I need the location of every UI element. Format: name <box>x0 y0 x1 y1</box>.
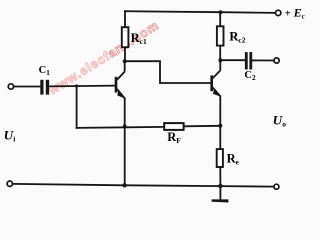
terminal input <box>8 84 13 89</box>
watermark <box>45 18 161 98</box>
terminal bottom left <box>7 181 12 186</box>
wire Rc2 top lead <box>219 12 221 26</box>
wire input right segment to Q1 base <box>49 85 115 88</box>
terminal output top <box>274 58 279 63</box>
node feedback / Q1 emitter crossing <box>123 124 127 128</box>
wire Rc1 bottom lead <box>124 47 126 61</box>
node input feedback tap <box>75 84 78 87</box>
node top rail / Rc2 <box>219 10 223 14</box>
wire Q2 collector node to C2 <box>220 59 245 61</box>
wire Re bottom lead <box>219 167 221 186</box>
wire Q1 emitter down to bottom rail <box>124 98 126 185</box>
wire feedback horizontal right of RF <box>184 125 221 128</box>
node RF / Q2 emitter <box>218 124 222 128</box>
resistor Rc2 <box>217 26 224 45</box>
wire feedback horizontal left of RF <box>77 127 165 128</box>
wire input left segment <box>14 86 41 88</box>
ground <box>212 199 229 202</box>
wire top supply rail <box>125 11 275 13</box>
terminal bottom right <box>274 184 279 189</box>
node Q1 collector <box>123 59 127 63</box>
wire bottom rail <box>13 184 273 187</box>
wire C2 to output terminal <box>252 59 274 61</box>
wire Q2 emitter down to Re <box>219 96 221 149</box>
resistor Re <box>217 149 223 167</box>
capacitor C2 <box>245 52 252 69</box>
wire ground stem <box>219 186 221 200</box>
resistor Rc1 <box>122 27 129 47</box>
resistor RF <box>164 123 183 130</box>
terminal +Ec <box>276 10 281 15</box>
node Re / bottom rail <box>218 184 222 188</box>
wire Rc1 top lead <box>124 11 126 27</box>
transistor Q2 <box>210 60 220 96</box>
wire feedback tap vertical <box>76 86 78 128</box>
wire Rc2 bottom lead <box>219 46 221 61</box>
capacitor C1 <box>40 80 49 95</box>
node Q2 collector <box>218 58 222 62</box>
node Q1 emitter / bottom rail <box>122 183 126 187</box>
wire Q1 collector to Q2 base link <box>125 61 211 83</box>
transistor Q1 <box>115 61 125 98</box>
